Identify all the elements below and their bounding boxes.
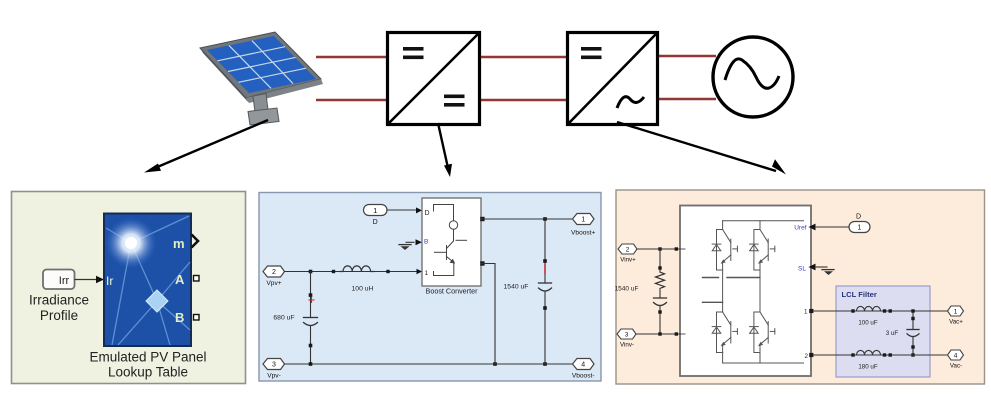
phase columns — [722, 270, 724, 312]
ground symbol GND2 — [815, 267, 834, 275]
IGBT Q2 top-right — [750, 230, 775, 271]
svg-text:2: 2 — [805, 353, 809, 360]
dc- bus — [722, 353, 724, 364]
svg-text:3 uF: 3 uF — [886, 330, 899, 337]
svg-text:1540 uF: 1540 uF — [504, 284, 529, 291]
ground symbol GND1 — [399, 239, 422, 250]
svg-text:1: 1 — [581, 217, 585, 224]
svg-text:2: 2 — [272, 269, 276, 276]
capacitor C2 1540uF — [504, 219, 552, 364]
connport 1 Vboost+ — [571, 214, 596, 237]
connport 4 Vac- — [948, 350, 964, 370]
svg-text:Irr: Irr — [59, 275, 70, 287]
svg-text:Vac-: Vac- — [950, 363, 962, 370]
callout arrow A3 — [617, 122, 786, 175]
svg-text:1540 uF: 1540 uF — [615, 286, 639, 293]
svg-text:D: D — [425, 210, 430, 217]
node junctions on bottom wire — [309, 362, 313, 366]
svg-text:LCL Filter: LCL Filter — [842, 290, 877, 299]
wire phase 2 out — [813, 354, 948, 356]
inductor L2 100uF — [851, 306, 892, 326]
svg-text:B: B — [424, 239, 428, 246]
svg-text:D: D — [373, 219, 378, 226]
inductor L1 100uH — [332, 266, 390, 293]
port m chevron — [192, 235, 199, 248]
dc-link capacitor C3 1540uF with series R — [615, 249, 667, 334]
callout arrow A1 — [144, 120, 268, 173]
svg-text:1: 1 — [954, 309, 958, 316]
svg-text:Emulated PV Panel: Emulated PV Panel — [89, 350, 206, 365]
svg-text:1: 1 — [425, 270, 429, 277]
inport 1 oval (D) — [849, 214, 870, 233]
panel background — [12, 192, 246, 384]
connport 2 Vpv+ — [263, 266, 285, 287]
svg-text:2: 2 — [626, 247, 630, 254]
svg-text:680 uF: 680 uF — [273, 315, 294, 322]
svg-text:1: 1 — [373, 206, 377, 215]
wire D oval to Uref — [815, 226, 849, 228]
inport 1 oval (D) — [364, 205, 388, 227]
dc-ac converter B2 — [568, 33, 658, 125]
svg-text:1: 1 — [858, 225, 862, 232]
svg-text:Boost Converter: Boost Converter — [426, 287, 479, 296]
svg-text:Vac+: Vac+ — [949, 319, 963, 326]
Irr constant block — [43, 270, 75, 290]
IGBT Q3 bottom-left — [712, 312, 737, 353]
svg-text:Irradiance: Irradiance — [29, 293, 89, 308]
svg-text:100 uH: 100 uH — [352, 286, 374, 293]
wire Vinv+ to block — [637, 248, 680, 250]
svg-text:Vinv-: Vinv- — [620, 342, 634, 349]
bottom wire Vpv- to Vboost- — [285, 363, 573, 365]
connport 2 Vinv+ — [618, 244, 637, 264]
wire boost out upper to Vboost+ — [481, 218, 573, 220]
connport 3 Vinv- — [617, 329, 636, 349]
stand — [253, 94, 269, 117]
svg-text:3: 3 — [625, 332, 629, 339]
port A square — [194, 276, 200, 282]
svg-text:Ir: Ir — [106, 274, 113, 288]
phase tap stubs — [703, 277, 719, 279]
left port stubs — [680, 248, 685, 250]
svg-text:A: A — [175, 272, 185, 287]
svg-text:B: B — [175, 310, 184, 325]
PV panel lookup block — [104, 214, 191, 347]
wire W1 PV to DC-DC upper — [316, 56, 388, 59]
wire W5 AC upper — [657, 55, 716, 58]
capacitor C1 680uF — [273, 272, 317, 365]
svg-text:Profile: Profile — [40, 308, 78, 323]
wire D to boost — [387, 207, 422, 213]
port arrowheads on right edge — [809, 224, 816, 231]
boost converter block U1 — [417, 198, 485, 286]
svg-text:Vboost-: Vboost- — [572, 373, 595, 380]
shunt capacitor C4 3uF — [886, 309, 919, 356]
svg-text:Vinv+: Vinv+ — [620, 257, 636, 264]
grid source G1 — [713, 37, 793, 117]
panel background — [259, 193, 601, 382]
solar panel PV1 — [200, 32, 323, 125]
connport 1 Vac+ — [948, 306, 964, 326]
left port arrow (1) — [417, 269, 423, 275]
svg-text:1: 1 — [804, 309, 808, 316]
inverter block U2 — [680, 206, 811, 377]
wire W4 DC bus lower — [479, 99, 568, 102]
svg-text:Uref: Uref — [794, 225, 806, 232]
svg-text:4: 4 — [954, 353, 958, 360]
svg-text:180 uF: 180 uF — [858, 364, 877, 371]
svg-text:Vpv-: Vpv- — [267, 373, 281, 380]
callout arrow A2 — [438, 123, 452, 177]
svg-text:SL: SL — [798, 266, 806, 273]
signal wire Irr to PV block — [75, 276, 105, 284]
connport 4 Vboost- — [572, 359, 595, 380]
node junction — [309, 270, 313, 274]
IGBT Q4 bottom-right — [750, 312, 775, 353]
svg-text:Lookup Table: Lookup Table — [108, 365, 188, 380]
dc+ bus — [723, 220, 804, 222]
IGBT Q1 top-left — [712, 230, 737, 271]
LCL filter block — [836, 286, 930, 377]
dc-dc converter B1 — [388, 33, 480, 125]
connport 3 Vpv- — [263, 359, 285, 380]
wire W6 AC lower — [657, 98, 716, 101]
wire boost out lower to bottom bus — [481, 264, 495, 365]
wire W2 PV to DC-DC lower — [316, 99, 388, 102]
svg-text:m: m — [173, 236, 185, 251]
panel background — [616, 190, 985, 384]
right port marks — [480, 217, 484, 221]
inductor L3 180uF — [851, 350, 892, 370]
wire Vinv- to block — [636, 333, 680, 335]
svg-text:D: D — [856, 214, 861, 221]
svg-text:4: 4 — [581, 362, 585, 369]
port B square — [194, 315, 200, 321]
svg-text:3: 3 — [272, 362, 276, 369]
svg-text:Vpv+: Vpv+ — [266, 280, 281, 287]
wire phase 1 out — [813, 310, 948, 312]
svg-text:100 uF: 100 uF — [858, 320, 877, 327]
wire Vpv+ to boost port 1 — [285, 271, 417, 273]
svg-text:Vboost+: Vboost+ — [571, 230, 596, 237]
wire W3 DC bus upper — [479, 56, 568, 59]
